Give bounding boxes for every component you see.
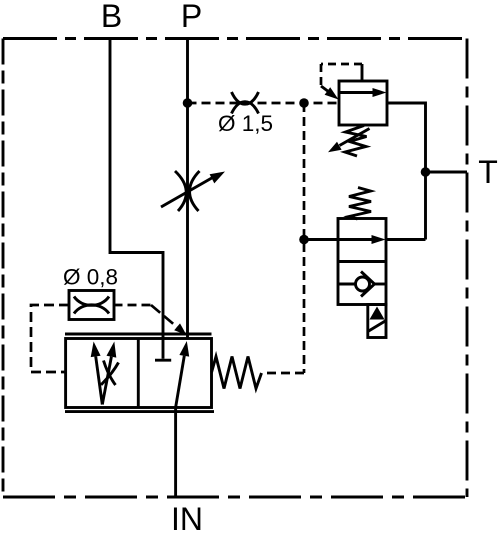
svg-text:P: P	[181, 0, 202, 34]
wire to port T	[426, 171, 468, 174]
pilot to main valve spring side (dashed)	[262, 372, 304, 375]
junction node on P line	[183, 98, 193, 108]
orifice 0,8 in box	[69, 291, 114, 320]
svg-text:Ø 1,5: Ø 1,5	[218, 111, 273, 136]
pilot line from P to relief valve (dashed)	[188, 102, 340, 105]
pilot branch down (dashed)	[303, 103, 306, 373]
check valve (lower position)	[338, 283, 356, 286]
wire B: from port B down, jog right, into main valve right position	[110, 39, 163, 359]
flow arrow inside	[339, 91, 374, 94]
main spool valve (proportional, 2 position)	[65, 334, 262, 412]
wire P: from port P down to main valve	[186, 39, 189, 340]
spring on top	[349, 188, 371, 220]
outer parallel line top	[65, 333, 212, 336]
relief valve U1 (pilot operated)	[321, 64, 387, 156]
outer parallel line bottom	[65, 410, 214, 413]
envelope	[66, 339, 212, 408]
svg-text:B: B	[101, 0, 122, 34]
svg-text:T: T	[478, 154, 498, 190]
relief valve body	[339, 81, 387, 125]
wire: sequence valve outlet to T branch	[386, 238, 426, 241]
wire IN: from main valve bottom to border	[174, 408, 177, 498]
right position: blocked port T-bar	[155, 359, 171, 362]
pilot line: orifice to main valve left pilot (dashed)	[31, 305, 69, 372]
sequence valve U2	[338, 188, 386, 338]
hydraulic pilot actuator below	[368, 305, 386, 338]
pilot line: orifice to P node at valve (dashed with arrow)	[114, 305, 187, 335]
wire: relief valve outlet to T	[387, 103, 426, 240]
flow arrow (upper position)	[338, 238, 373, 241]
enclosure border (dash-dot valve block boundary)	[3, 39, 467, 498]
spring on right	[212, 357, 262, 389]
junction node on pilot line	[299, 98, 309, 108]
junction node at T branch	[421, 167, 431, 177]
position divider	[137, 339, 140, 408]
junction node at sequence valve inlet	[299, 235, 309, 245]
pilot loop	[361, 64, 364, 81]
left position: two up arrows from common bottom	[96, 356, 103, 404]
throttle arcs on left position	[104, 361, 116, 386]
variable throttle on P line	[161, 171, 225, 211]
adjustable spring below	[345, 126, 367, 157]
orifice 1,5 (crossed arcs on pilot line)	[232, 92, 259, 114]
svg-text:Ø 0,8: Ø 0,8	[63, 265, 118, 290]
right position: flow arrow up	[176, 356, 185, 408]
wire: pilot junction to sequence valve	[304, 238, 338, 241]
valve body (two positions)	[338, 219, 386, 305]
svg-text:IN: IN	[171, 501, 203, 537]
